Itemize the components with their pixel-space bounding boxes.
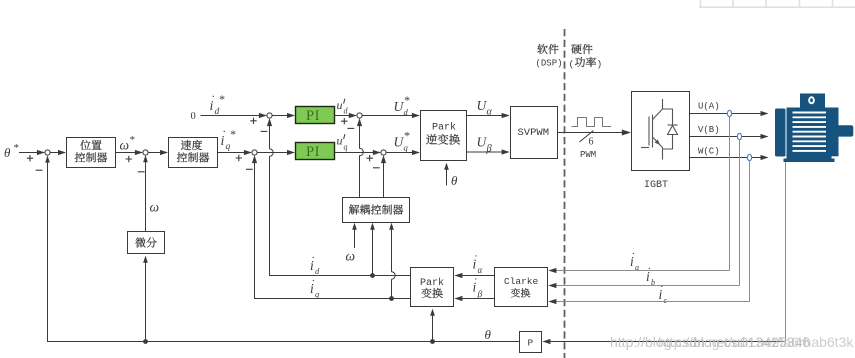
svg-text:(DSP): (DSP)	[536, 59, 563, 69]
wire S1 to position controller	[50, 150, 66, 155]
node theta* input label	[4, 142, 19, 160]
wire omega into decoupling controller	[352, 223, 357, 248]
svg-text:Clarke: Clarke	[504, 276, 539, 287]
svg-text:c: c	[664, 296, 668, 305]
wire S3d to PI1	[272, 113, 295, 118]
node i_c label	[659, 281, 668, 305]
wire P output theta feedback line to left	[36, 155, 520, 341]
node PWM label	[580, 150, 596, 160]
svg-text:·: ·	[648, 263, 652, 275]
wire phase A current sensor down to i_a line	[729, 117, 731, 271]
node bus slash /6 label	[580, 131, 594, 148]
block differentiator 微分	[128, 232, 165, 254]
wire i_q tap into decoupling controller with hop over i_d line	[389, 223, 395, 301]
svg-text:*: *	[404, 129, 410, 143]
summing junction S3q	[252, 150, 257, 155]
svg-text:): )	[597, 59, 603, 70]
node current sensor on phase U(A)	[727, 110, 731, 116]
wire IGBT phase U(A) to motor	[690, 111, 769, 116]
svg-text:P: P	[528, 338, 534, 349]
svg-text:q: q	[315, 289, 320, 299]
node theta label on feedback line	[485, 327, 492, 342]
node watermark text	[610, 334, 854, 350]
wire Park i_q output back to S3q	[246, 155, 411, 298]
wire theta* to summing junction S1	[19, 150, 45, 162]
wire Clarke to Park (i_beta)	[454, 296, 494, 301]
wire speed controller to summing junction S3q	[218, 150, 252, 161]
wire IGBT phase W(C) to motor	[690, 155, 769, 160]
node omega* label	[120, 134, 136, 153]
node u_q&#39; label	[337, 134, 348, 152]
svg-text:*: *	[219, 92, 225, 106]
node PMSM motor symbol	[775, 94, 853, 163]
node phase label W(C)	[698, 147, 720, 157]
node i_d label	[310, 252, 320, 276]
svg-text:IGBT: IGBT	[644, 180, 668, 191]
wire dashed software/hardware divider	[564, 29, 566, 358]
svg-text:6: 6	[589, 137, 594, 148]
wire position controller to summing junction S2	[116, 150, 143, 162]
wire Clarke to Park (i_alpha)	[454, 273, 494, 278]
node u_d&#39; label	[337, 98, 349, 116]
wire theta up into Park transform	[430, 309, 435, 342]
node label 软件(DSP)	[536, 44, 563, 69]
svg-text:q: q	[226, 142, 231, 152]
node i_alpha label	[473, 251, 483, 276]
block position controller 位置控制器	[67, 138, 116, 168]
svg-text:*: *	[129, 134, 135, 146]
wire theta into inverse Park bottom	[444, 163, 449, 186]
summing junction S4d	[357, 113, 362, 118]
node current sensor on phase V(B)	[737, 133, 741, 139]
wire inverse Park to SVPWM (U_alpha)	[467, 113, 510, 118]
block Clarke transform Clarke变换	[495, 268, 548, 307]
wire i_a to Clarke	[548, 268, 729, 273]
wire S3q to PI2	[257, 150, 295, 155]
svg-text:β: β	[486, 144, 493, 155]
svg-text:θ: θ	[485, 327, 492, 342]
svg-text:·: ·	[222, 124, 226, 138]
node phase label V(B)	[698, 125, 720, 135]
node i_q label	[310, 275, 320, 299]
svg-text:V(B): V(B)	[698, 125, 720, 135]
node junction dot theta to differentiator	[143, 339, 148, 344]
svg-text:(: (	[569, 59, 575, 70]
block decoupling controller 解耦控制器	[343, 198, 410, 223]
wire Park i_d output back to S3d with hop over q-line	[261, 118, 411, 275]
svg-text:0: 0	[191, 111, 196, 122]
summing junction S3d	[267, 113, 272, 118]
node omega label (decoupling input)	[346, 249, 356, 264]
node i_d* label	[210, 89, 225, 117]
block PI2 (q-axis current PI)	[296, 143, 335, 160]
svg-text:q: q	[404, 143, 409, 153]
svg-text:u: u	[337, 134, 343, 148]
svg-text:PI: PI	[306, 108, 320, 124]
svg-text:θ: θ	[4, 145, 11, 160]
node omega label (differentiator output)	[150, 200, 160, 215]
node U_d* label	[394, 93, 410, 117]
block SVPWM	[511, 107, 558, 159]
wire S2 to speed controller	[148, 150, 168, 155]
svg-text:·: ·	[474, 274, 478, 286]
svg-text:·: ·	[312, 252, 316, 264]
wire decoupling output to S4d (minus) with hop over q-line	[347, 118, 363, 197]
wire phase C current sensor down to i_c line	[749, 161, 751, 302]
svg-text:Park: Park	[420, 277, 444, 289]
svg-text:d: d	[315, 266, 320, 276]
svg-text:*: *	[404, 93, 410, 107]
node i_q* label	[221, 124, 236, 152]
svg-text:·: ·	[474, 251, 478, 263]
summing junction S2	[143, 150, 148, 155]
svg-text:θ: θ	[451, 173, 458, 188]
wire PI1 to summing junction S4d	[335, 113, 357, 125]
node zero reference label	[191, 111, 196, 122]
svg-text:ω: ω	[150, 200, 160, 215]
svg-text:PWM: PWM	[580, 150, 596, 160]
svg-text:·: ·	[632, 248, 636, 260]
svg-text:http://blog.csdn.net/la6rhab6t: http://blog.csdn.net/la6rhab6t3k	[658, 334, 854, 350]
wire S4q to inverse Park (U_q*)	[386, 150, 420, 155]
svg-text:*: *	[13, 142, 19, 154]
block inverse Park transform Park逆变换	[421, 111, 467, 161]
wire PI2 to summing junction S4q	[335, 150, 381, 162]
node junction dot theta to Park transform	[430, 339, 435, 344]
svg-text:q: q	[344, 143, 348, 152]
node i_b label	[646, 263, 655, 287]
wire theta up into differentiator 微分	[143, 256, 148, 342]
block IGBT inverter	[632, 92, 690, 171]
svg-text:ω: ω	[120, 138, 130, 153]
wire motor encoder down to position line	[785, 162, 787, 342]
svg-text:ω: ω	[346, 249, 356, 264]
wire encoder line into P block	[542, 339, 785, 344]
node theta label (inverse Park input)	[451, 173, 458, 188]
wire phase B current sensor down to i_b line	[739, 140, 741, 286]
svg-text:·: ·	[312, 275, 316, 287]
block PI1 (d-axis current PI)	[296, 107, 335, 124]
svg-text:Park: Park	[432, 122, 456, 134]
summing junction S4q	[381, 150, 386, 155]
wire S4d to inverse Park (U_d*)	[362, 113, 420, 118]
svg-text:d: d	[344, 107, 349, 116]
wire 0 to summing junction S3d	[201, 113, 267, 124]
block Park transform Park变换	[411, 268, 454, 307]
node i_a label	[630, 248, 639, 272]
node current sensor on phase W(C)	[747, 154, 751, 160]
node top-table-remnant	[699, 0, 855, 7]
summing junction S1	[45, 150, 50, 155]
svg-text:SVPWM: SVPWM	[518, 127, 550, 139]
block speed controller 速度控制器	[169, 138, 218, 168]
wire SVPWM to IGBT (6 PWM signals)	[558, 130, 632, 136]
svg-text:W(C): W(C)	[698, 147, 720, 157]
wire decoupling output to S4q (minus)	[373, 155, 386, 197]
svg-text:u: u	[337, 98, 343, 112]
node i_beta label	[473, 274, 483, 301]
svg-text:α: α	[478, 265, 483, 275]
wire i_c to Clarke	[548, 299, 749, 304]
svg-text:U(A): U(A)	[698, 102, 720, 112]
node IGBT label	[644, 180, 668, 191]
svg-text:*: *	[230, 127, 236, 141]
node U_q* label	[394, 129, 410, 153]
svg-text:·: ·	[660, 281, 664, 293]
wire differentiator omega up into S2 (minus)	[138, 155, 148, 231]
wire i_b to Clarke	[548, 283, 739, 288]
node phase label U(A)	[698, 102, 720, 112]
node U_alpha label	[477, 98, 493, 118]
node label 硬件(功率)	[569, 44, 603, 70]
wire IGBT phase V(B) to motor	[690, 134, 769, 139]
node U_beta label	[477, 135, 493, 155]
svg-text:PI: PI	[306, 144, 320, 160]
wire inverse Park to SVPWM (U_beta)	[467, 149, 510, 154]
svg-text:·: ·	[211, 89, 215, 103]
wire i_d tap into decoupling controller	[370, 223, 375, 278]
node PWM pulse waveform symbol	[572, 118, 612, 127]
block position sensor P	[520, 332, 542, 353]
